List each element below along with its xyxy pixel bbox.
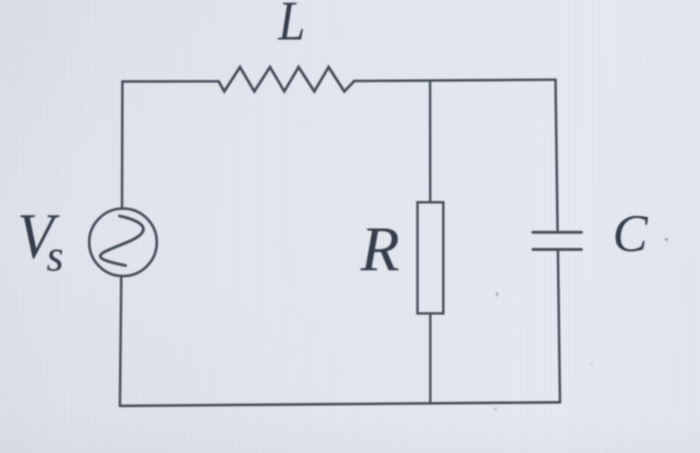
dust speck near C <box>665 238 668 241</box>
svg-text:s: s <box>47 232 64 281</box>
wire right vertical upper <box>556 80 558 232</box>
wire inductor to top-right corner <box>354 80 555 81</box>
voltage source sine squiggle <box>100 216 143 266</box>
capacitor C top plate <box>533 231 582 234</box>
wire left vertical upper <box>121 82 124 209</box>
svg-text:R: R <box>360 213 400 284</box>
wire R branch upper <box>429 81 431 203</box>
resistor R box <box>418 202 444 313</box>
dust speck bottom right <box>591 364 593 366</box>
wire top-left to inductor <box>122 80 218 83</box>
voltage source Vs circle <box>89 209 157 277</box>
wire R branch lower <box>429 313 431 403</box>
dust speck left of capacitor branch <box>496 293 497 297</box>
svg-text:C: C <box>613 205 649 263</box>
capacitor C bottom plate <box>533 248 582 251</box>
dust speck below bottom wire <box>494 408 497 411</box>
wire bottom <box>120 402 560 406</box>
wire right vertical lower <box>558 249 560 402</box>
svg-text:L: L <box>277 0 305 52</box>
inductor L <box>219 67 355 91</box>
wire left vertical lower <box>120 276 121 406</box>
